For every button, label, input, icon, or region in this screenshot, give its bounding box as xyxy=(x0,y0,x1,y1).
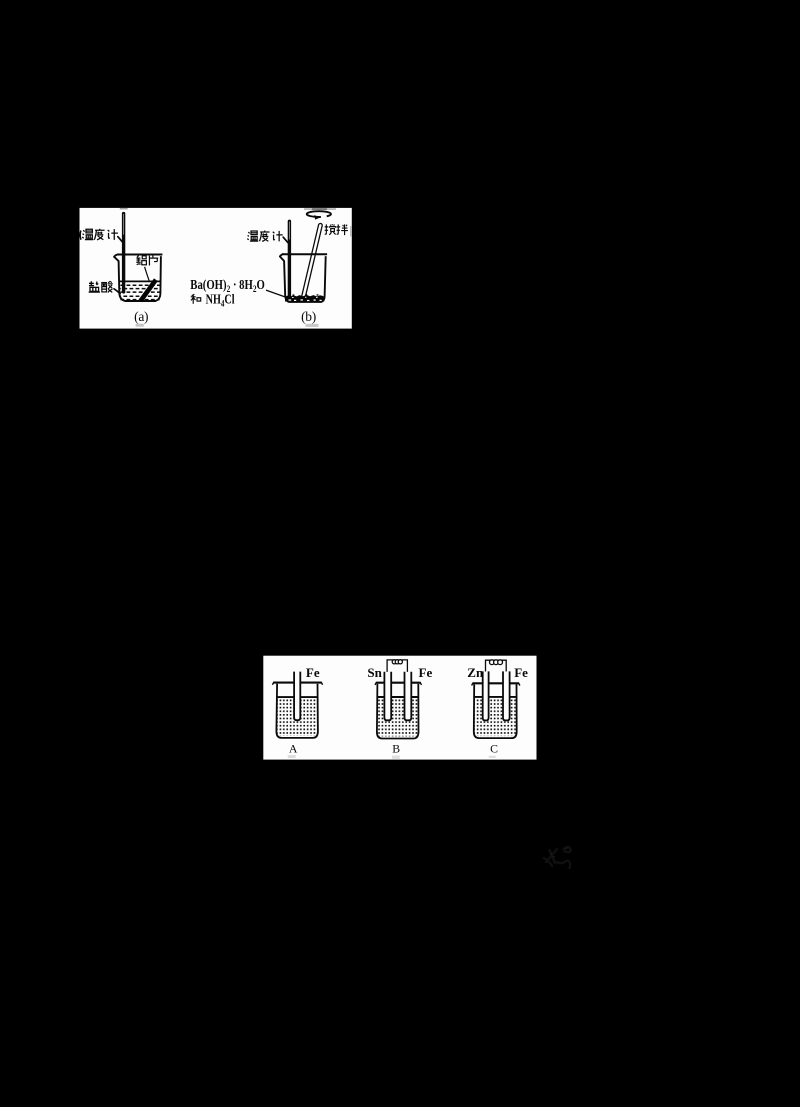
gray scan dash at top edge above rotation arrow xyxy=(304,208,336,210)
svg-text:(b): (b) xyxy=(301,309,316,324)
thermometer (a) xyxy=(122,212,125,294)
svg-text:Fe: Fe xyxy=(419,665,433,680)
beaker A walls and bottom xyxy=(276,684,318,738)
liquid surface A xyxy=(277,696,318,698)
liquid dash rows (a) xyxy=(120,285,159,299)
rotation arrow above stirrer xyxy=(307,211,331,219)
electrode tube Zn (C) xyxy=(483,671,489,720)
gray dash under (b) xyxy=(306,324,319,327)
beaker B walls and bottom xyxy=(377,684,419,739)
connecting wire B xyxy=(387,660,407,672)
connecting wire C xyxy=(486,660,507,671)
beaker A rim xyxy=(273,682,321,684)
svg-text:B: B xyxy=(392,742,400,756)
thermometer (b) xyxy=(288,220,291,298)
svg-text:Fe: Fe xyxy=(306,665,320,680)
coil B xyxy=(392,660,402,664)
electrode tube Fe (C) xyxy=(503,671,510,720)
aluminium strip in beaker (a) xyxy=(141,280,156,301)
svg-text:C: C xyxy=(490,742,498,756)
electrode tube Fe (B) xyxy=(405,672,412,721)
pointer from 温度计 to thermometer (a) xyxy=(118,237,123,242)
label 温度计 (b) xyxy=(247,231,282,242)
svg-text:NH4Cl: NH4Cl xyxy=(206,291,236,309)
beaker (a) rim xyxy=(117,254,162,256)
electrode tube A xyxy=(294,672,300,721)
faint handwritten scribble on black background xyxy=(544,847,571,868)
pointer from 盐酸 to liquid xyxy=(114,289,120,294)
svg-text:Fe: Fe xyxy=(514,665,528,680)
svg-text:Sn: Sn xyxy=(367,665,382,680)
gray dash under B xyxy=(392,756,400,759)
stippled liquid C xyxy=(475,699,516,736)
liquid surface C xyxy=(474,696,517,698)
pointer from label to beaker bottom xyxy=(266,290,287,297)
white panel 2 (beakers A B C) xyxy=(263,656,536,760)
gray scan tick above thermometer (a) xyxy=(120,208,128,209)
beaker (b) spout, walls and bottom xyxy=(280,254,326,302)
pointer from 温度计 to thermometer (b) xyxy=(283,237,288,242)
gray dash under (a) xyxy=(136,324,144,327)
beaker (a) spout, walls and bottom xyxy=(114,254,161,301)
white panel 1 (experiment a/b figure) xyxy=(80,208,352,329)
label 搅拌 xyxy=(325,224,348,235)
gray dash under A xyxy=(288,755,296,758)
label 盐酸 xyxy=(89,281,113,292)
svg-text:Zn: Zn xyxy=(467,665,484,680)
beaker B rim xyxy=(376,682,421,684)
coil C xyxy=(490,660,503,665)
cut 棒 character fragment at right edge xyxy=(350,226,352,237)
beaker (b) rim xyxy=(282,253,327,255)
beaker C rim xyxy=(473,682,520,684)
label 和 NH4Cl xyxy=(191,291,235,309)
gray dash under C xyxy=(489,756,496,758)
beaker C walls and bottom xyxy=(474,684,517,738)
svg-text:A: A xyxy=(289,742,298,756)
electrode tube Sn (B) xyxy=(384,672,391,721)
label 铝片 xyxy=(136,255,158,265)
stippled liquid B xyxy=(378,699,418,737)
granular solid at bottom of beaker (b) xyxy=(285,295,324,302)
svg-text:(a): (a) xyxy=(134,309,148,324)
stippled liquid A xyxy=(277,699,317,736)
stirring rod (b) xyxy=(302,223,323,298)
liquid surface (a) xyxy=(119,280,160,282)
liquid surface B xyxy=(377,696,418,698)
cut character fragment at left panel edge xyxy=(79,231,82,240)
pointer from 铝片 to strip xyxy=(145,267,150,281)
label 温度计 (a) xyxy=(82,229,118,240)
